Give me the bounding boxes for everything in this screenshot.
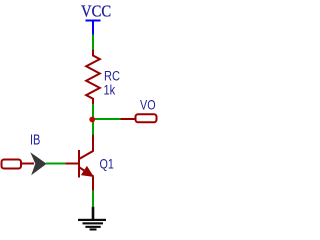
svg-text:VO: VO xyxy=(140,97,156,112)
svg-text:IB: IB xyxy=(30,131,40,148)
svg-text:Q1: Q1 xyxy=(100,156,115,171)
svg-text:VCC: VCC xyxy=(81,3,111,21)
svg-text:1k: 1k xyxy=(104,83,116,98)
